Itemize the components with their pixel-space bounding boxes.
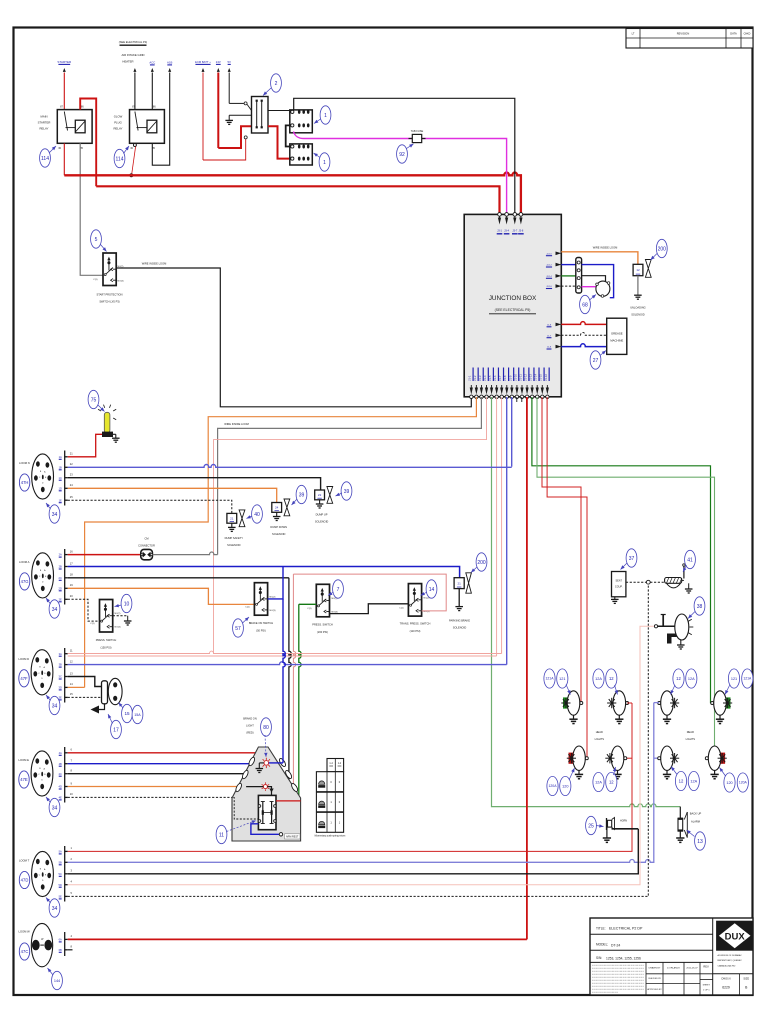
svg-text:11: 11 [219, 832, 224, 838]
buzzer lamp in arm rest [263, 785, 267, 789]
svg-text:14: 14 [429, 587, 435, 593]
switch S57 brake on switch 50psi [254, 583, 267, 616]
svg-text:BRAKE ON SWITCH: BRAKE ON SWITCH [249, 621, 273, 625]
svg-text:AIR INTAKE GRID: AIR INTAKE GRID [121, 53, 144, 57]
svg-text:LIGHTS: LIGHTS [686, 737, 696, 741]
wire 47D blue to rear light feeds [68, 703, 654, 863]
svg-text:J3-1: J3-1 [497, 230, 502, 233]
svg-text:2C: 2C [59, 576, 62, 580]
wire blue junction box J1-9 to loom N row2 [511, 397, 513, 467]
balloon 34 connector 47D [49, 899, 60, 917]
svg-text:REV.: REV. [703, 965, 709, 969]
wire parking brake solenoid to ground [458, 589, 460, 607]
svg-text:38: 38 [697, 604, 703, 610]
rear light 120 (bottom-right) [721, 753, 726, 764]
wire blue rocker to connector [251, 824, 279, 835]
svg-text:PARKING BRAKE: PARKING BRAKE [449, 619, 470, 623]
svg-text:24V: 24V [216, 60, 221, 64]
wire green junction box to connector strip [561, 275, 576, 277]
revision table [626, 29, 753, 49]
balloon 13 [606, 669, 617, 688]
wire dashed seat coupler to time delay 41 [626, 581, 647, 583]
svg-text:LOOM N: LOOM N [19, 461, 30, 465]
wire 24V feed [217, 68, 220, 72]
wire press switch 10 to ground [113, 615, 128, 617]
svg-text:13: 13 [697, 839, 703, 845]
svg-text:121A: 121A [743, 677, 752, 681]
svg-text:DUMP UP: DUMP UP [316, 513, 328, 517]
svg-text:SOLENOID: SOLENOID [227, 543, 241, 547]
svg-text:1D: 1D [59, 486, 62, 490]
wire pink junction box J1-4 to loom D [214, 397, 487, 654]
svg-text:(50 PSI): (50 PSI) [256, 629, 266, 633]
svg-text:GREASE: GREASE [611, 332, 623, 336]
balloon 121Ar [742, 669, 753, 688]
svg-text:J1-14: J1-14 [534, 374, 538, 381]
balloon 14 trans press switch [426, 580, 437, 598]
balloon 12A low [688, 771, 699, 790]
drawing number cells [713, 973, 753, 975]
wire 47E blue to arm rest [68, 763, 250, 765]
wire backup alarm to ground [676, 838, 684, 842]
svg-text:4A: 4A [59, 751, 62, 755]
svg-text:DUX: DUX [725, 931, 746, 942]
title block [590, 918, 753, 995]
svg-text:12A: 12A [690, 779, 697, 783]
svg-text:DT-24: DT-24 [611, 944, 620, 948]
balloon 92 tab fuse [397, 145, 408, 163]
balloon 200 parking brake solenoid [476, 553, 487, 571]
balloon 34 connector 47H [49, 505, 60, 523]
balloon 121 [557, 669, 568, 688]
svg-text:25: 25 [588, 823, 594, 829]
svg-text:37: 37 [629, 556, 635, 562]
svg-text:(150 PSI): (150 PSI) [101, 646, 112, 650]
relay K2 glow plug relay [130, 110, 165, 144]
wire 5V to key switch upper contact [229, 102, 244, 104]
svg-text:J2-12: J2-12 [546, 265, 552, 267]
wire blue junction box to grease machine [561, 344, 606, 347]
wire 47G orange to brake on switch [68, 588, 255, 604]
svg-text:12A: 12A [595, 780, 602, 784]
svg-text:5D: 5D [59, 883, 62, 887]
wire 47G black to arm rest [68, 577, 289, 579]
balloon 144 connector 47C [52, 971, 63, 989]
svg-text:12: 12 [636, 268, 640, 272]
wire to buzzer lamp [246, 786, 263, 788]
svg-text:22: 22 [318, 493, 322, 497]
svg-text:12: 12 [609, 676, 614, 681]
wire LED to ground [259, 762, 264, 764]
svg-text:4C: 4C [59, 772, 62, 776]
fuse holder strip [102, 681, 108, 704]
seat coupler switch 37 [612, 572, 626, 597]
svg-text:UNLOADING: UNLOADING [630, 306, 645, 310]
wire 47F orange row joins orange vertical [68, 686, 85, 688]
connector 47D loom T [32, 851, 54, 896]
svg-text:NC(2): NC(2) [115, 613, 121, 615]
balloon 120r [724, 773, 735, 792]
rear light 121 (top-right) [726, 697, 731, 708]
svg-text:5: 5 [95, 237, 98, 243]
balloon 200 unloading solenoid [656, 239, 667, 257]
wire 5V feed [228, 68, 231, 72]
svg-text:J3-7: J3-7 [512, 230, 517, 233]
svg-text:5C: 5C [59, 872, 62, 876]
svg-text:2D: 2D [59, 586, 62, 590]
svg-text:41: 41 [687, 557, 693, 563]
connector strip CN3 [576, 258, 582, 294]
svg-text:120: 120 [726, 781, 732, 785]
wire relay K1 86 to red bus 2 [80, 99, 96, 187]
balloon 121A [544, 669, 555, 688]
svg-text:APPROVED BY: APPROVED BY [647, 988, 662, 991]
wire green press switch 7 to arm rest [299, 603, 317, 605]
svg-text:CM: CM [144, 537, 148, 541]
label arm rest [285, 834, 301, 839]
svg-text:10: 10 [124, 601, 130, 607]
svg-text:A DIVISION OF DURABAC: A DIVISION OF DURABAC [718, 954, 743, 957]
svg-text:1E: 1E [59, 498, 62, 502]
svg-text:HEAD: HEAD [596, 730, 603, 734]
47C pin rows [64, 932, 66, 956]
svg-text:D.ORLANDO: D.ORLANDO [667, 967, 680, 970]
wire pink loop trans press switch to arm rest area [293, 574, 446, 611]
svg-text:21: 21 [230, 517, 234, 521]
wire 47E black to arm rest [68, 773, 245, 775]
wire red junction box J1-16 to head light lower [547, 397, 587, 758]
wire 47G red to CM connector [68, 554, 141, 556]
grease machine [607, 318, 627, 354]
arm rest console body [232, 747, 301, 841]
connector 47C loom W [31, 923, 52, 966]
svg-text:15: 15 [124, 711, 130, 716]
balloon 25 horn [586, 816, 597, 834]
wire glow plug to ground [113, 433, 116, 435]
wire dashed junction box to grease machine [561, 333, 606, 336]
contact from relay K2 30 to red bus [133, 144, 136, 147]
svg-text:J1-7: J1-7 [498, 375, 502, 381]
head light 120 (bottom-left) [569, 753, 574, 764]
svg-text:BACK UP: BACK UP [690, 812, 702, 816]
junction box bottom pins J1 [470, 388, 473, 395]
junction box [464, 214, 561, 396]
svg-text:WIRE INSIDE LOOM: WIRE INSIDE LOOM [593, 246, 618, 250]
ground at key switch [228, 115, 230, 120]
svg-text:JUNCTION BOX: JUNCTION BOX [489, 295, 537, 302]
svg-text:TRANS. PRESS. SWITCH: TRANS. PRESS. SWITCH [400, 622, 431, 626]
svg-text:STARTER: STARTER [38, 121, 51, 125]
balloon 39 dump up [341, 482, 352, 500]
svg-text:Momentary push spring return: Momentary push spring return [315, 835, 346, 838]
junction box top pins J3 [498, 213, 502, 217]
balloon 39 dump down [296, 485, 307, 503]
balloon 27 grease machine [590, 351, 601, 369]
svg-text:5V: 5V [227, 60, 231, 64]
svg-text:39: 39 [299, 492, 305, 498]
svg-text:ELECTRICAL P2 DP: ELECTRICAL P2 DP [609, 927, 643, 931]
svg-text:1C: 1C [59, 476, 62, 480]
svg-text:3E: 3E [59, 696, 62, 700]
balloon 41 time delay [685, 550, 696, 568]
svg-text:REVISION: REVISION [677, 32, 690, 36]
balloon 121r [728, 669, 739, 688]
wire pink junction box J1-7 to pink bus A [501, 397, 503, 654]
wire red junction box to grease machine [561, 322, 606, 325]
svg-text:C(1): C(1) [245, 607, 250, 609]
svg-text:J1-13: J1-13 [529, 374, 533, 381]
svg-text:WIRE INSIDE LOOM: WIRE INSIDE LOOM [142, 262, 167, 266]
wire ECM BATT+ to key switch start contact [203, 139, 246, 160]
wire unloading solenoid to ground [637, 276, 639, 296]
wire dashed junction box to connector strip [561, 285, 576, 287]
svg-text:2012-06-07: 2012-06-07 [686, 968, 698, 970]
svg-text:NO(3): NO(3) [118, 281, 124, 283]
svg-text:LIGHTS: LIGHTS [595, 737, 605, 741]
svg-text:47D: 47D [21, 878, 29, 883]
dump up solenoid (39) [315, 490, 325, 500]
wire red junction box J1-15 to head light 1 [542, 397, 581, 703]
svg-text:GLOW: GLOW [114, 115, 123, 119]
switch S14 trans press switch 110psi [408, 584, 421, 617]
wire ecm batt feed [202, 68, 205, 72]
wire blue strip to motor 68 [582, 265, 614, 298]
svg-text:5E: 5E [59, 895, 62, 899]
wire 47F blue row to junction box [68, 662, 507, 665]
balloon 2 key switch [271, 74, 282, 92]
wire 47H black to dump up solenoid [68, 478, 321, 490]
wire 47F dashed to fuse holder [68, 696, 102, 698]
balloon 1 connector CN2 [319, 153, 330, 171]
balloon 75 glow plug [88, 390, 99, 408]
svg-text:LOOM A: LOOM A [19, 560, 30, 564]
svg-text:(RED): (RED) [246, 731, 253, 735]
svg-text:TITLE:: TITLE: [596, 927, 606, 931]
svg-text:J1-16: J1-16 [544, 374, 548, 381]
svg-text:REAR: REAR [687, 730, 694, 734]
svg-text:MODEL:: MODEL: [596, 943, 608, 947]
wire 47H red to glow plug [68, 434, 102, 457]
relay K1 main starter relay [57, 110, 92, 144]
svg-text:2E: 2E [59, 597, 62, 601]
legend table momentary switch [327, 759, 344, 772]
svg-text:SHEET: SHEET [703, 985, 711, 987]
svg-text:SOLENOID: SOLENOID [453, 626, 467, 630]
key release flag [99, 704, 105, 710]
stub junction box J1-10 [516, 397, 518, 402]
svg-text:120A: 120A [739, 781, 748, 785]
stub 47C row B [68, 949, 73, 951]
svg-text:(200 PSI): (200 PSI) [317, 630, 328, 634]
svg-text:SOLENOID: SOLENOID [315, 520, 329, 524]
wire starter feed [63, 68, 66, 72]
svg-text:21: 21 [457, 581, 461, 585]
wire magenta CN1 to tab fuse to junction box [294, 132, 413, 139]
wire CM connector to junction box (gray) [152, 552, 217, 555]
svg-text:REPENTIGNY, QUEBEC: REPENTIGNY, QUEBEC [718, 960, 743, 962]
svg-text:(SEE ELECTRICAL P4): (SEE ELECTRICAL P4) [119, 40, 148, 44]
svg-text:LOOM T: LOOM T [19, 859, 30, 863]
svg-text:MAIN: MAIN [41, 115, 48, 119]
svg-text:A1B: A1B [167, 61, 172, 65]
svg-text:121: 121 [731, 677, 737, 681]
fuse F1 tab fuse [412, 134, 421, 142]
CM connector [141, 549, 153, 559]
brake on light (80) red LED [264, 761, 269, 766]
rear light 12 (top-3rd) [661, 691, 674, 715]
balloon 13 low [606, 772, 617, 791]
balloon 15A fuse rating [132, 705, 143, 723]
wire glow plug loop to A1B [168, 68, 171, 72]
svg-text:39: 39 [344, 489, 350, 495]
svg-text:12: 12 [679, 779, 684, 784]
svg-text:J1-5: J1-5 [488, 375, 492, 381]
svg-text:6B: 6B [59, 948, 62, 952]
balloon 5 start protection switch [91, 230, 102, 248]
svg-text:1253, 1254, 1255, 1256: 1253, 1254, 1255, 1256 [606, 957, 641, 961]
svg-text:1A: 1A [59, 455, 62, 459]
svg-text:(110 PSI): (110 PSI) [410, 629, 421, 633]
svg-text:SEAT: SEAT [616, 580, 623, 583]
wire 47H orange to dump down solenoid [68, 488, 277, 502]
wire thick red junction box J1-12 to loom W [526, 397, 528, 939]
wire dark green junction box J1-13 to rear light [532, 397, 712, 703]
connector 47E loom E [31, 751, 53, 796]
balloon 34 connector 47F [49, 696, 60, 714]
svg-text:34: 34 [52, 805, 58, 811]
wire red bus 2 to junction box J3 [96, 186, 499, 214]
svg-text:MACHINE: MACHINE [610, 339, 623, 343]
svg-text:17: 17 [113, 727, 119, 733]
svg-text:6229: 6229 [722, 986, 730, 990]
svg-text:C(1): C(1) [399, 608, 404, 610]
svg-text:114: 114 [116, 156, 124, 162]
switch S10 press switch 150psi [100, 600, 113, 633]
svg-text:47F: 47F [20, 676, 28, 681]
wire 47E red to arm rest [68, 752, 256, 754]
svg-text:200: 200 [658, 246, 667, 252]
wire 24V to key switch [218, 126, 251, 148]
svg-text:12A: 12A [688, 677, 695, 681]
balloon 120Ar [737, 773, 748, 792]
wire dashed inside arm rest [233, 797, 258, 819]
svg-text:4E: 4E [59, 796, 62, 800]
svg-text:SWITCH (J/S P3): SWITCH (J/S P3) [99, 300, 119, 304]
balloon 80 brake on light [261, 718, 272, 736]
svg-text:200: 200 [477, 560, 486, 566]
balloon 10 press switch [121, 594, 132, 612]
svg-text:J2-14: J2-14 [546, 276, 552, 278]
svg-text:144: 144 [54, 979, 60, 983]
wire black strip to motor 68 [582, 276, 606, 282]
wire 47D red to head light lower right [68, 703, 632, 851]
svg-text:NC(2): NC(2) [424, 598, 430, 600]
svg-text:LOOM W: LOOM W [19, 930, 31, 934]
balloon 34 connector 47G [49, 600, 60, 618]
connector CN1 (upper) [290, 110, 313, 133]
svg-text:4D: 4D [59, 785, 62, 789]
svg-text:ECM BATT +: ECM BATT + [195, 60, 211, 64]
svg-text:47C: 47C [21, 949, 29, 954]
svg-text:HORN: HORN [620, 820, 627, 823]
wire press switch 7 to trans press switch [330, 604, 409, 614]
parking brake valve symbol [466, 573, 472, 593]
wire horn to ground [606, 827, 608, 838]
balloon 37 seat coupler [626, 549, 637, 567]
head light 13 (top-2nd) [613, 691, 626, 715]
svg-text:114: 114 [41, 156, 49, 162]
svg-text:PRESS. SWITCH: PRESS. SWITCH [96, 638, 117, 642]
arm rest harness ovals left slope [248, 756, 256, 766]
svg-text:6A: 6A [59, 938, 62, 942]
svg-text:LOOM E: LOOM E [19, 758, 30, 762]
svg-text:J1-9: J1-9 [508, 375, 512, 381]
wire acc feed [151, 68, 154, 72]
unloading solenoid valve symbol [645, 260, 651, 278]
svg-text:34: 34 [52, 906, 58, 912]
svg-text:3A: 3A [59, 652, 62, 656]
svg-text:LIGHT: LIGHT [246, 724, 254, 728]
head light 121 (top-left) [563, 697, 568, 708]
svg-text:J1-4: J1-4 [483, 375, 487, 381]
svg-text:PLUG: PLUG [114, 121, 122, 125]
beacon light 38 [675, 614, 689, 640]
rocker switch block [258, 795, 276, 829]
wire key switch feed to junction box (black top run) [294, 98, 515, 214]
wire 47E orange to arm rest [68, 786, 239, 788]
svg-text:DUMP SAFETY: DUMP SAFETY [225, 536, 244, 540]
wire blue junction box J1-8 to loom D row2 [506, 397, 508, 665]
fuse 15 body [108, 678, 122, 704]
balloon 38 beacon [694, 597, 705, 615]
motor M1 (68) [596, 281, 610, 296]
wire blue junction box to connector strip [561, 264, 576, 266]
switch S5 start protection [103, 253, 116, 286]
wire red rocker output [276, 800, 301, 802]
wire pink bus B [68, 655, 497, 657]
balloon 11 arm rest rocker [216, 825, 227, 843]
svg-text:3C: 3C [59, 675, 62, 679]
svg-text:S/N:: S/N: [596, 956, 602, 960]
svg-text:SIZE: SIZE [743, 977, 749, 981]
wire brake on switch to blue bus [268, 567, 283, 599]
svg-text:HEATER: HEATER [122, 60, 133, 64]
svg-text:PRESS. SWITCH: PRESS. SWITCH [312, 623, 333, 627]
svg-text:J1-11: J1-11 [518, 374, 522, 381]
wire air intake heater feed [133, 68, 136, 72]
svg-text:C(1): C(1) [307, 608, 312, 610]
svg-text:7: 7 [337, 587, 340, 593]
switch S7 press switch 200psi [316, 584, 329, 617]
wire relay K1 85 to start protection switch [80, 143, 103, 275]
arm rest harness ovals right slope [278, 757, 286, 767]
svg-text:COUP.: COUP. [615, 586, 623, 589]
balloon 15 fuse [122, 704, 133, 722]
title block signature grid [645, 962, 647, 995]
wire orange junction box J1-2 to left harness [85, 397, 477, 687]
svg-text:57: 57 [235, 626, 241, 632]
balloon 120A [547, 776, 558, 795]
svg-text:3B: 3B [59, 663, 62, 667]
balloon 114 glow plug relay [114, 149, 125, 167]
balloon 12A [686, 669, 697, 688]
svg-text:34: 34 [52, 703, 58, 709]
connector 47H loom N [32, 454, 54, 499]
svg-text:121: 121 [559, 677, 565, 681]
key switch S1 [252, 97, 269, 134]
svg-text:CHECKED BY: CHECKED BY [648, 978, 662, 980]
svg-text:120: 120 [562, 784, 568, 788]
